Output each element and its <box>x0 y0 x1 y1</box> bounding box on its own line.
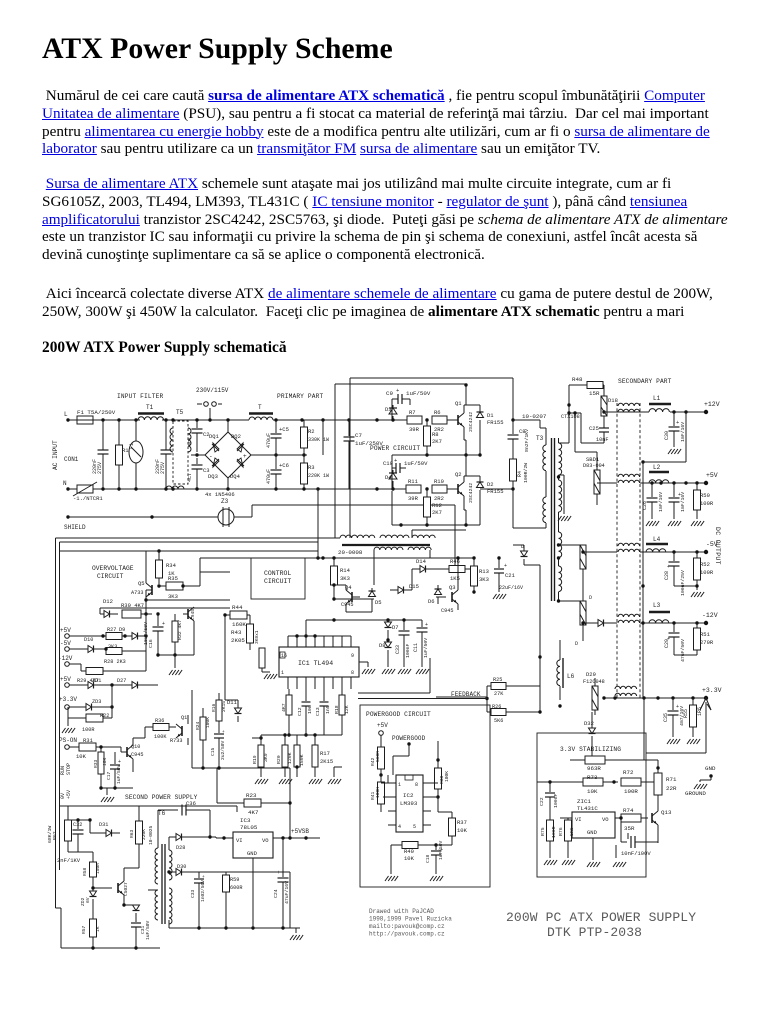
svg-text:2nF/1KV: 2nF/1KV <box>57 857 81 864</box>
voltage selector <box>197 403 202 405</box>
svg-text:1K: 1K <box>95 926 101 932</box>
svg-text:2K7: 2K7 <box>432 438 442 445</box>
svg-text:R26: R26 <box>492 704 501 710</box>
wire base Q1 <box>447 419 458 421</box>
svg-text:100K: 100K <box>375 787 381 798</box>
svg-text:1R5: 1R5 <box>697 707 703 716</box>
inductor T <box>249 412 273 414</box>
wire dots N line <box>101 487 104 490</box>
svg-text:+: + <box>396 387 399 394</box>
svg-text:D31: D31 <box>99 822 108 828</box>
resistor R24 <box>200 717 206 740</box>
svg-text:1uF/50V: 1uF/50V <box>404 460 428 467</box>
svg-text:R24: R24 <box>195 721 201 730</box>
svg-text:10K: 10K <box>587 788 598 795</box>
svg-text:D10: D10 <box>84 637 93 643</box>
resistor R57 <box>90 919 97 937</box>
resistor R33 <box>98 752 104 774</box>
svg-text:100R: 100R <box>700 500 714 507</box>
svg-text:C7: C7 <box>355 432 362 439</box>
svg-text:600R: 600R <box>230 885 242 891</box>
resistor R3 <box>303 455 305 463</box>
svg-text:IC3: IC3 <box>240 817 251 824</box>
ground T3 center <box>559 474 565 476</box>
svg-text:GND: GND <box>587 829 598 836</box>
svg-text:5K6: 5K6 <box>569 827 575 836</box>
svg-text:100R/2W: 100R/2W <box>523 463 529 483</box>
transformer T2 20-0008 <box>340 535 375 538</box>
resistor R59 <box>225 872 227 875</box>
svg-text:LM393: LM393 <box>400 800 418 807</box>
svg-text:+: + <box>222 730 225 735</box>
svg-text:L4: L4 <box>653 536 661 543</box>
transistor Q10 C945 <box>126 747 128 757</box>
svg-text:R59: R59 <box>230 877 239 883</box>
svg-text:R2: R2 <box>308 428 315 435</box>
svg-text:C945: C945 <box>341 602 353 608</box>
svg-text:4: 4 <box>398 824 401 830</box>
transistor Q1 2SC4242 <box>457 415 459 425</box>
svg-text:D18: D18 <box>608 397 618 404</box>
bridge rectifier DQ1 DQ2 DQ3 DQ4 <box>205 432 251 478</box>
svg-text:275V: 275V <box>160 462 166 474</box>
resistor R4 <box>510 459 517 481</box>
svg-text:Q13: Q13 <box>661 809 672 816</box>
terminal -5V <box>704 550 708 554</box>
svg-text:R35: R35 <box>168 575 178 582</box>
svg-text:8: 8 <box>351 670 354 676</box>
svg-text:100K: 100K <box>154 734 167 740</box>
svg-text:C36: C36 <box>186 800 196 807</box>
capacitor C27 <box>673 483 675 497</box>
box 3.3V stabilizing <box>537 733 646 877</box>
wire ov to右 <box>199 572 201 586</box>
winding +12V <box>618 403 640 406</box>
capacitor C12 <box>305 689 307 701</box>
svg-text:-12V: -12V <box>702 612 718 619</box>
zener ZD1 <box>88 682 94 689</box>
svg-text:POWERGOOD: POWERGOOD <box>392 735 426 742</box>
svg-text:A733: A733 <box>131 590 143 596</box>
resistor R15 <box>286 695 292 715</box>
svg-text:http://pavouk.comp.cz: http://pavouk.comp.cz <box>369 931 445 938</box>
svg-text:IC1 TL494: IC1 TL494 <box>298 660 333 667</box>
svg-text:D6: D6 <box>428 598 435 605</box>
svg-text:+: + <box>162 621 165 627</box>
svg-text:+: + <box>676 419 679 426</box>
svg-text:VO: VO <box>602 816 609 823</box>
svg-text:C21: C21 <box>505 572 516 579</box>
diode D8 <box>385 642 392 648</box>
svg-text:20-0008: 20-0008 <box>338 549 363 556</box>
wire power bottom rail <box>392 524 480 526</box>
svg-text:R75: R75 <box>540 827 546 836</box>
svg-text:1mF/16V: 1mF/16V <box>680 492 686 512</box>
svg-text:+: + <box>394 457 397 464</box>
resistor R52 <box>696 552 698 558</box>
svg-text:+: + <box>118 759 121 765</box>
transistor Q11 C5027 <box>117 883 119 893</box>
svg-text:R52: R52 <box>700 561 710 568</box>
resistor R20 <box>282 745 288 767</box>
svg-text:-12V: -12V <box>58 655 73 662</box>
svg-text:3K3: 3K3 <box>168 593 178 600</box>
svg-text:C11: C11 <box>413 643 419 652</box>
svg-text:6V: 6V <box>85 897 91 903</box>
svg-text:+5V: +5V <box>66 790 72 799</box>
svg-text:3K3: 3K3 <box>340 575 350 582</box>
wire snubber node <box>512 378 514 420</box>
svg-text:+5VSB: +5VSB <box>291 828 309 835</box>
svg-text:OVERVOLTAGE: OVERVOLTAGE <box>92 565 134 572</box>
svg-text:C945: C945 <box>190 609 196 620</box>
wire ov rows <box>99 608 101 614</box>
diode D2 FR155 <box>479 476 481 482</box>
paragraph 2 <box>42 175 762 264</box>
svg-text:+: + <box>243 453 247 460</box>
capacitor C28 <box>673 552 675 561</box>
wire ov node <box>145 590 147 614</box>
svg-text:POWERGOOD CIRCUIT: POWERGOOD CIRCUIT <box>366 711 431 718</box>
svg-text:47uF/16V: 47uF/16V <box>284 881 290 904</box>
svg-text:R58: R58 <box>82 867 88 876</box>
svg-text:39R: 39R <box>409 426 420 433</box>
resistor R51 <box>696 623 698 628</box>
svg-text:CIRCUIT: CIRCUIT <box>264 578 291 585</box>
svg-text:L2: L2 <box>653 464 661 471</box>
svg-text:+5V: +5V <box>706 472 718 479</box>
svg-text:5K6: 5K6 <box>494 718 503 724</box>
resistor R7 <box>407 416 422 424</box>
svg-text:+: + <box>202 875 205 880</box>
svg-text:150K: 150K <box>299 754 305 766</box>
svg-text:R733: R733 <box>170 738 182 744</box>
wire -12V rail <box>640 622 706 624</box>
svg-text:R63: R63 <box>129 829 135 838</box>
svg-text:PS-ON: PS-ON <box>59 737 77 744</box>
svg-text:T3: T3 <box>536 435 544 442</box>
svg-text:C30: C30 <box>664 431 670 440</box>
svg-text:+: + <box>667 564 670 570</box>
capacitor C15 <box>214 733 224 735</box>
svg-text:22uF/16V: 22uF/16V <box>499 585 523 591</box>
resistor R74 <box>621 814 641 822</box>
svg-text:L: L <box>64 411 68 418</box>
capacitor C23 10nF <box>620 818 622 832</box>
resistor R27 <box>106 633 122 640</box>
transistor Q13 <box>651 813 653 823</box>
resistor R62 68K/1W <box>67 806 69 820</box>
svg-text:R48: R48 <box>572 376 583 383</box>
wire bridge top/bottom <box>227 420 229 432</box>
resistor R31 <box>65 745 70 750</box>
capacitor C1 <box>102 420 104 450</box>
svg-text:220K 1W: 220K 1W <box>308 473 329 479</box>
svg-text:C25: C25 <box>589 425 599 432</box>
svg-text:PRIMARY PART: PRIMARY PART <box>277 393 323 400</box>
capacitor C7 <box>348 420 350 436</box>
diode D5 <box>371 588 373 591</box>
wire shield <box>66 515 69 518</box>
resistor R36 <box>133 737 145 739</box>
svg-text:R6: R6 <box>434 409 441 416</box>
svg-text:C13: C13 <box>315 707 321 716</box>
resistor R35 <box>159 585 166 587</box>
svg-text:L6: L6 <box>567 673 575 680</box>
svg-text:DQ1: DQ1 <box>209 433 220 440</box>
svg-text:2K15: 2K15 <box>320 758 333 765</box>
transistor Q2 2SC4242 <box>457 484 459 494</box>
svg-text:8n2F/1KV: 8n2F/1KV <box>524 429 530 452</box>
diode D6 <box>437 585 439 589</box>
svg-text:R73: R73 <box>587 774 598 781</box>
IC IC2 LM393 <box>396 775 423 832</box>
svg-text:200W PC ATX POWER SUPPLY: 200W PC ATX POWER SUPPLY <box>506 910 696 925</box>
svg-text:DQ3: DQ3 <box>208 473 218 480</box>
svg-text:10n: 10n <box>307 705 313 714</box>
capacitor C16 <box>157 614 159 626</box>
svg-text:R72: R72 <box>623 769 634 776</box>
svg-text:3K9x1: 3K9x1 <box>254 630 260 644</box>
svg-text:1n5: 1n5 <box>325 705 331 714</box>
svg-text:220K: 220K <box>141 829 147 840</box>
capacitor C33 <box>403 620 405 630</box>
wire vertical to control <box>317 489 319 540</box>
svg-text:10K: 10K <box>102 757 108 766</box>
svg-text:C17: C17 <box>106 771 112 780</box>
svg-text:ZD3: ZD3 <box>92 699 101 705</box>
wire t6 gate <box>148 889 158 891</box>
wire IC right <box>359 661 368 663</box>
wire 3.3 sense <box>643 698 645 760</box>
capacitor C33b <box>198 872 200 878</box>
winding -12V <box>618 614 640 617</box>
svg-text:R55: R55 <box>683 709 689 718</box>
svg-text:D5: D5 <box>375 599 382 606</box>
wire 3.3 feedback frame <box>705 702 707 753</box>
svg-text:10-0025: 10-0025 <box>148 825 154 845</box>
wire -12V row <box>80 664 82 671</box>
svg-text:R37: R37 <box>457 819 467 826</box>
resistor R72 <box>621 778 641 786</box>
resistor R49 <box>259 648 265 668</box>
svg-text:AC INPUT: AC INPUT <box>52 440 59 470</box>
svg-text:3K9: 3K9 <box>263 753 269 762</box>
svg-text:4K7: 4K7 <box>281 703 287 712</box>
svg-text:120K: 120K <box>287 752 293 764</box>
svg-text:DQ2: DQ2 <box>231 433 241 440</box>
resistor R63 <box>136 821 143 844</box>
svg-text:C32: C32 <box>73 822 82 828</box>
svg-text:VI: VI <box>236 837 243 844</box>
transistor Q5 A733 <box>151 585 153 595</box>
capacitor C2 <box>196 420 198 428</box>
wire bottom left rail <box>61 947 160 949</box>
svg-text:R8: R8 <box>432 431 439 438</box>
svg-text:2SC4242: 2SC4242 <box>468 412 474 432</box>
svg-text:47uF/50V: 47uF/50V <box>680 639 686 662</box>
resistor R46 <box>440 568 449 570</box>
resistor R44 <box>230 611 247 619</box>
resistor R28 <box>105 649 107 651</box>
svg-text:12K: 12K <box>344 705 350 714</box>
svg-text:1mF/16V: 1mF/16V <box>680 422 686 442</box>
svg-text:R32 4K7: R32 4K7 <box>177 620 183 640</box>
paragraph 3 <box>42 285 762 321</box>
svg-text:-5V: -5V <box>706 541 718 548</box>
paragraph 1 <box>42 87 762 158</box>
capacitor C26 <box>651 483 653 497</box>
svg-text:2K15: 2K15 <box>221 701 227 712</box>
svg-text:Z3: Z3 <box>221 498 229 505</box>
svg-text:D27: D27 <box>117 678 126 684</box>
svg-text:39R: 39R <box>408 495 419 502</box>
svg-text:100R: 100R <box>700 569 714 576</box>
wire mid nodes <box>287 733 290 736</box>
svg-text:FR155: FR155 <box>487 419 504 426</box>
svg-text:27K: 27K <box>494 691 504 697</box>
svg-text:+5V: +5V <box>377 722 388 729</box>
svg-text:C5027: C5027 <box>123 882 129 896</box>
resistor R29 <box>86 668 103 675</box>
svg-text:CONTROL: CONTROL <box>264 570 291 577</box>
svg-text:R34: R34 <box>166 562 177 569</box>
diode D7 <box>387 620 389 622</box>
svg-text:R50: R50 <box>700 492 710 499</box>
svg-text:100R: 100R <box>82 727 94 733</box>
IC U1 TL494 <box>279 647 359 677</box>
capacitor C13 <box>323 689 325 701</box>
svg-text:L1: L1 <box>653 395 661 402</box>
svg-text:CON1: CON1 <box>64 456 79 463</box>
wire pg bottom <box>390 845 392 874</box>
svg-text:R44: R44 <box>232 604 243 611</box>
svg-text:D15: D15 <box>409 583 419 590</box>
wire bridge plus rail <box>251 454 307 456</box>
svg-text:C29: C29 <box>664 639 670 648</box>
zener ZD2 <box>90 891 97 897</box>
svg-text:T1: T1 <box>146 404 154 411</box>
svg-text:R25: R25 <box>493 677 502 683</box>
svg-text:C33: C33 <box>395 645 401 654</box>
resistor R17 <box>312 745 318 767</box>
svg-text:R14: R14 <box>340 567 351 574</box>
capacitor C18 <box>435 845 437 850</box>
capacitor C17 <box>114 752 116 764</box>
wire sps border <box>60 805 238 807</box>
capacitor C30 <box>673 412 675 426</box>
svg-text:R71: R71 <box>666 776 677 783</box>
wire pg right <box>431 782 438 784</box>
diode D14 <box>420 566 426 573</box>
svg-text:SHIELD: SHIELD <box>64 524 86 531</box>
svg-text:R3: R3 <box>308 464 315 471</box>
wire +5V rail <box>640 482 706 484</box>
svg-text:D29: D29 <box>586 671 596 678</box>
svg-text:T: T <box>258 404 262 411</box>
resistor R26 <box>491 709 506 716</box>
svg-text:-5V: -5V <box>60 640 71 647</box>
svg-text:SECONDARY PART: SECONDARY PART <box>618 378 672 385</box>
wire q10 bottom <box>101 787 133 789</box>
terminal +12V <box>704 410 708 414</box>
svg-text:35R: 35R <box>624 825 635 832</box>
svg-text:R74: R74 <box>623 807 634 814</box>
resistor R2 <box>303 420 305 427</box>
resistor R50 <box>696 483 698 490</box>
wire power mid rail <box>392 454 480 456</box>
svg-text:160K: 160K <box>232 621 246 628</box>
svg-text:100K: 100K <box>205 717 211 728</box>
svg-text:Q1: Q1 <box>181 715 187 721</box>
svg-text:R17: R17 <box>320 750 330 757</box>
diode D13 <box>523 545 525 551</box>
rectifier D18 <box>601 396 607 416</box>
terminal +5V <box>704 481 708 485</box>
svg-text:1: 1 <box>398 782 401 788</box>
resistor R42 <box>378 747 385 769</box>
svg-text:10K: 10K <box>404 855 415 862</box>
svg-text:2SC4242: 2SC4242 <box>468 483 474 503</box>
svg-text:VI: VI <box>575 816 582 823</box>
svg-text:D: D <box>575 641 578 647</box>
svg-text:D1: D1 <box>487 412 494 419</box>
wire bottom rail <box>228 488 392 490</box>
wire aux to stab <box>524 564 540 566</box>
transformer secondary dashed core <box>616 403 618 700</box>
resistor R37 <box>449 818 456 836</box>
svg-text:C22: C22 <box>539 797 545 806</box>
svg-text:4K7: 4K7 <box>248 809 259 816</box>
svg-text:-1./NTCR1: -1./NTCR1 <box>73 495 103 502</box>
svg-text:1uF/50V: 1uF/50V <box>438 840 444 860</box>
svg-text:3K3: 3K3 <box>479 576 489 583</box>
svg-text:2K05: 2K05 <box>231 637 245 644</box>
svg-text:R11: R11 <box>408 478 419 485</box>
varistor VA1 <box>135 420 137 441</box>
wire outer border <box>56 537 336 539</box>
svg-text:R28 2K3: R28 2K3 <box>104 659 126 665</box>
resistor R14 <box>333 558 335 566</box>
svg-text:R13: R13 <box>479 568 489 575</box>
svg-text:R20: R20 <box>276 755 282 764</box>
svg-text:R12: R12 <box>432 502 442 509</box>
svg-text:STOP: STOP <box>66 763 72 775</box>
svg-text:Q3: Q3 <box>449 584 456 591</box>
transistor Q11s A733 <box>181 726 183 736</box>
svg-text:CIRCUIT: CIRCUIT <box>97 573 124 580</box>
svg-text:R7: R7 <box>409 409 416 416</box>
svg-text:470uF: 470uF <box>266 433 272 448</box>
resistor R22 <box>68 717 86 719</box>
svg-text:+5V: +5V <box>60 676 71 683</box>
wire q6 down <box>193 632 195 655</box>
svg-text:+C6: +C6 <box>279 462 289 469</box>
capacitor C6 <box>275 455 277 469</box>
svg-text:R4: R4 <box>517 471 523 477</box>
rectifier -5V diodes <box>580 545 586 569</box>
capacitor C22 <box>549 782 551 792</box>
resistor R38 <box>435 768 442 789</box>
winding -5V <box>618 543 640 546</box>
wire -5V rail <box>640 551 706 553</box>
svg-text:R18: R18 <box>334 705 340 714</box>
capacitor C32 <box>77 820 79 829</box>
svg-text:+5V: +5V <box>60 627 71 634</box>
wire cross loop <box>685 412 687 462</box>
capacitor C5 <box>275 420 277 433</box>
resistor R41 <box>378 782 385 804</box>
